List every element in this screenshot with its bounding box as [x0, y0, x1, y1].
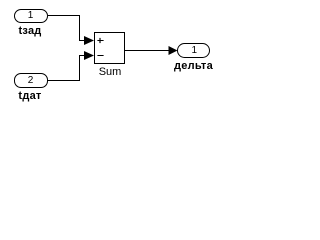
svg-text:Sum: Sum	[99, 66, 122, 78]
svg-text:1: 1	[28, 10, 34, 21]
arrowhead into outport	[169, 46, 178, 55]
arrowhead into Sum minus input	[84, 51, 94, 60]
label tдат	[18, 90, 42, 102]
sum block	[95, 33, 125, 64]
svg-text:tзад: tзад	[18, 25, 41, 37]
svg-text:tдат: tдат	[18, 90, 42, 102]
wire from inport 1 to Sum plus input	[48, 16, 85, 41]
plus sign	[97, 38, 103, 43]
svg-text:дельта: дельта	[174, 60, 214, 72]
label tзад	[18, 25, 41, 37]
wire from inport 2 to Sum minus input	[48, 56, 85, 81]
label дельта	[174, 60, 214, 72]
arrowhead into Sum plus input	[84, 36, 94, 45]
inport 2	[15, 74, 48, 88]
inport 1	[15, 10, 48, 23]
label Sum	[99, 66, 122, 78]
wire from Sum output to outport	[125, 50, 171, 52]
outport 1	[178, 44, 210, 58]
minus sign	[97, 55, 103, 57]
svg-text:2: 2	[28, 75, 34, 86]
svg-text:1: 1	[192, 45, 198, 56]
